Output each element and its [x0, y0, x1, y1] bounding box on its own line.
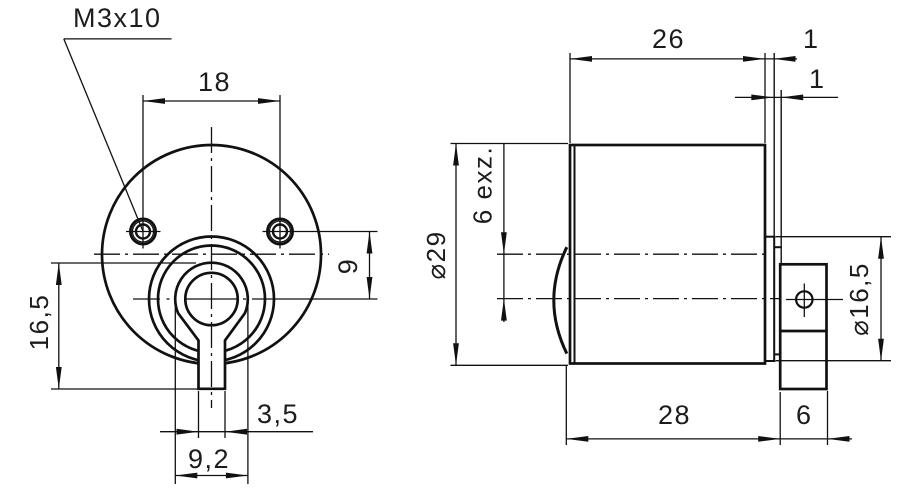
extension line top of dim 16,5 — [51, 262, 196, 264]
dimension ⌀16,5 line — [880, 237, 882, 361]
shaft axis centerline — [497, 298, 779, 300]
weight shaft hole — [796, 291, 812, 307]
screw hole left crosshair vertical / extension for dim 18 — [142, 95, 144, 249]
dimension 28 extension line left — [565, 366, 567, 445]
keyhole boss outline (9.2 circle with 3.5 tab) — [175, 263, 248, 389]
dimension ⌀29 arrow top — [453, 144, 459, 166]
dimension 9 line — [369, 232, 371, 300]
svg-text:26: 26 — [652, 24, 685, 54]
dimension ⌀29 extension line top — [451, 143, 569, 145]
flange circle (⌀29 housing front face) — [102, 145, 321, 364]
dimension 3,5 arrow left (pointing right) — [177, 429, 199, 435]
rear cover inner edge line — [574, 146, 576, 363]
dimension 18 line — [143, 100, 280, 102]
screw hole right M3 thread circle — [270, 221, 291, 242]
horizontal centerline through shaft bore / extension for dim 9 — [133, 298, 160, 300]
svg-text:⌀29: ⌀29 — [421, 230, 451, 279]
bearing boss ring A bottom edge — [765, 360, 775, 362]
screw hole left M3 core circle — [136, 225, 150, 239]
body axis centerline — [497, 253, 768, 255]
dimension 3,5 extension line left (tab left edge) — [198, 391, 200, 438]
plate|boss boundary vertical edge — [773, 237, 775, 361]
svg-text:16,5: 16,5 — [24, 294, 54, 351]
dimension 9,2 arrow left — [175, 473, 197, 479]
dimension ⌀16,5 extension line bottom — [776, 360, 891, 362]
dimension 6 exz. arrow bottom (pointing up at shaft axis) — [501, 299, 507, 321]
svg-text:6 exz.: 6 exz. — [468, 146, 498, 224]
dimension 6 extension line right — [827, 391, 829, 445]
dimension 9 arrow top — [367, 232, 373, 254]
boss inner circle — [158, 246, 265, 353]
dimension ⌀29 arrow bottom — [453, 343, 459, 365]
eccentric weight outline — [780, 264, 826, 389]
rear dome arc — [554, 247, 567, 353]
dimension 16,5 bottom extension line — [51, 388, 199, 390]
dimension 9,2 extension line left — [174, 303, 176, 484]
dimension 9,2 arrow right — [226, 473, 248, 479]
dimension 28 arrow left — [566, 436, 588, 442]
bearing boss ring B bottom edge — [774, 353, 782, 355]
dimension 6 exz. line — [503, 144, 505, 323]
svg-text:M3x10: M3x10 — [73, 3, 162, 33]
screw hole right crosshair horizontal / extension for dim 9 — [263, 231, 378, 233]
screw hole left M3 outer circle — [130, 219, 155, 244]
svg-text:28: 28 — [658, 400, 691, 430]
svg-text:1: 1 — [809, 64, 826, 94]
plate|boss boundary extension line (dim 1) — [773, 53, 775, 237]
dimension 18 arrow right — [258, 98, 280, 104]
dimension 9 arrow bottom — [367, 277, 373, 299]
weight hole crosshair vertical — [803, 284, 805, 318]
dimension 3,5 extension line right (tab right edge) — [224, 391, 226, 438]
screw hole left crosshair horizontal — [126, 231, 161, 233]
dimension 26 extension line left — [569, 53, 571, 143]
weight hole crosshair horizontal — [786, 299, 843, 301]
dimension 1a arrow (pointing left at plate) — [774, 56, 796, 62]
dimension ⌀16,5 arrow top — [878, 237, 884, 259]
svg-text:9,2: 9,2 — [188, 444, 230, 474]
boss outer circle (⌀16.5 bearing flange) — [149, 237, 274, 362]
dimension 28/6 extension line middle — [779, 392, 781, 445]
screw hole right M3 outer circle — [267, 219, 292, 244]
boss ring B right edge / extension of dim 1 — [780, 90, 782, 264]
screw hole right crosshair vertical / extension for dim 18 — [279, 95, 281, 249]
dimension ⌀16,5 extension line top — [776, 236, 891, 238]
dimension 26 extension line right — [764, 53, 766, 143]
horizontal centerline of flange — [94, 253, 329, 255]
dimension ⌀29 extension line bottom — [451, 364, 569, 366]
dimension 6 exz. arrow top (pointing down at body axis) — [501, 232, 507, 254]
svg-text:9: 9 — [333, 258, 363, 275]
dimension 26 arrow right — [743, 56, 765, 62]
dimension 16,5 line — [58, 263, 60, 389]
dimension 28 line — [566, 438, 852, 440]
dimension 28 arrow right — [758, 436, 780, 442]
svg-text:6: 6 — [796, 400, 813, 430]
leader line underline M3x10 — [64, 38, 172, 40]
svg-text:1: 1 — [803, 24, 820, 54]
eccentric weight chord edge — [780, 330, 826, 333]
leader line to left screw hole — [64, 39, 143, 231]
dimension 9,2 extension line right — [247, 303, 249, 484]
motor body outline — [570, 145, 765, 364]
screw hole left M3 thread circle — [133, 221, 154, 242]
dimension 9,2 line — [175, 475, 248, 477]
dimension 1b arrow left (pointing right) — [751, 95, 773, 101]
dimension 18 arrow left — [143, 98, 165, 104]
shaft bore circle — [185, 273, 237, 325]
bearing boss ring B top edge — [774, 246, 782, 248]
dimension 3,5 line — [160, 431, 313, 433]
svg-text:18: 18 — [198, 67, 231, 97]
dimension 1b arrow right (pointing left) — [781, 95, 803, 101]
vertical centerline of front view — [211, 127, 213, 408]
dimension 3,5 arrow right (pointing left) — [225, 429, 247, 435]
dimension 26 / 1 line — [570, 58, 797, 60]
screw hole right M3 core circle — [273, 225, 287, 239]
dimension 16,5 arrow bottom — [56, 367, 62, 389]
dimension 26 arrow left — [570, 56, 592, 62]
dimension ⌀29 line — [455, 144, 457, 366]
dimension 1b line — [735, 96, 838, 98]
svg-text:⌀16,5: ⌀16,5 — [844, 262, 874, 336]
dimension 16,5 arrow top — [56, 263, 62, 285]
dimension 6 arrow right (outside pointing left) — [828, 436, 850, 442]
bearing boss ring A top edge — [765, 236, 775, 238]
svg-text:3,5: 3,5 — [257, 399, 299, 429]
dimension ⌀16,5 arrow bottom — [878, 339, 884, 361]
